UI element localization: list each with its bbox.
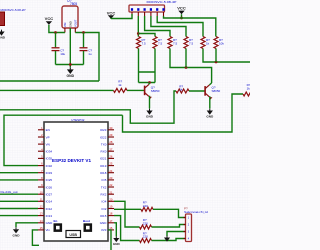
svg-text:IO21: IO21: [100, 157, 107, 161]
svg-text:VCC: VCC: [177, 6, 186, 11]
resistor R1 vertical: [137, 37, 141, 49]
ground at J1: [1, 30, 3, 32]
wire R12 to P2 pin4: [152, 239, 186, 241]
background canvas: [0, 0, 250, 250]
svg-text:IO23: IO23: [100, 128, 107, 132]
wire net B to R9: [123, 94, 244, 132]
wire IO32 net up-over: [4, 115, 123, 165]
svg-text:Boot: Boot: [83, 219, 90, 223]
wire R10 to P2 pin1: [153, 209, 185, 217]
module U2 left pins: [38, 129, 44, 131]
svg-text:IO14: IO14: [46, 200, 53, 204]
wire Q2 emitter to ground: [208, 97, 210, 109]
svg-text:21: 21: [109, 190, 112, 194]
svg-text:IO33: IO33: [46, 171, 53, 175]
wire VCC drop: [181, 14, 183, 18]
svg-text:7.5: 7.5: [142, 42, 147, 46]
wire P1 pin3 to R3 top: [145, 16, 170, 37]
regulator U1 body: [62, 6, 78, 28]
svg-text:S8050: S8050: [212, 89, 221, 93]
wire R3 bottom rail: [170, 49, 212, 84]
wire IO14 net: [0, 200, 38, 202]
ground at P2 pin3: [166, 236, 168, 238]
svg-text:19: 19: [109, 205, 112, 209]
svg-text:10u: 10u: [60, 52, 65, 56]
svg-text:VCC: VCC: [107, 10, 116, 15]
svg-text:Ds-24G_out: Ds-24G_out: [1, 190, 18, 194]
USB connector: [66, 231, 81, 238]
svg-text:24: 24: [109, 169, 112, 173]
wire collector link lower: [139, 82, 156, 84]
ground at Q1: [149, 109, 151, 111]
junction P1 pin2 branch: [137, 32, 140, 35]
wire +5V rail: [0, 80, 99, 82]
svg-text:IO13: IO13: [46, 214, 53, 218]
svg-text:IO22: IO22: [100, 135, 107, 139]
U1 pin VOUT: [74, 28, 76, 33]
svg-text:220: 220: [143, 235, 148, 239]
wire R6 bottom: [215, 49, 217, 63]
svg-text:IO5: IO5: [102, 178, 107, 182]
svg-text:20: 20: [109, 197, 112, 201]
svg-text:IO26: IO26: [46, 185, 53, 189]
capacitor C1: [55, 33, 57, 48]
resistor R8: [176, 89, 189, 93]
svg-text:IO25: IO25: [46, 178, 53, 182]
junction at C1 top: [54, 31, 57, 34]
svg-text:23: 23: [109, 176, 112, 180]
junction VCC on rail: [180, 17, 183, 20]
wire GND pin14 left: [16, 223, 38, 227]
wire IO15 to R12: [114, 216, 140, 241]
module U2 body: [44, 122, 108, 241]
wire R8 to Q2 base: [189, 90, 205, 92]
svg-text:TX0: TX0: [101, 142, 107, 146]
svg-text:IO27: IO27: [46, 192, 53, 196]
wire VOUT to +5V corner: [75, 33, 99, 82]
svg-text:15: 15: [40, 226, 43, 230]
wire R4 bottom: [185, 49, 187, 68]
svg-text:RX0: RX0: [101, 150, 107, 154]
wire IO4 to R11: [114, 201, 140, 227]
svg-text:11: 11: [40, 197, 43, 201]
svg-text:MODSVC-5.08-4P: MODSVC-5.08-4P: [147, 0, 177, 4]
ground below U1: [69, 67, 71, 69]
wire P1 pin5 to R5 top: [157, 16, 203, 37]
svg-text:ESP32 DEVKIT V1: ESP32 DEVKIT V1: [52, 158, 92, 163]
junction Q1 collector: [148, 81, 151, 84]
wire GPIO rail to R8: [0, 91, 176, 123]
wire IO27 net: [0, 193, 38, 195]
wire Q1 emitter to ground: [148, 96, 151, 108]
junction at C2 top: [82, 31, 85, 34]
svg-text:En: En: [54, 219, 58, 223]
resistor R12: [140, 239, 152, 243]
svg-text:10: 10: [40, 190, 43, 194]
svg-text:GND: GND: [146, 115, 154, 119]
svg-text:1k: 1k: [206, 42, 210, 46]
wire IO2 to R10: [114, 208, 141, 210]
junction R6 on rail: [215, 61, 218, 64]
svg-text:14: 14: [40, 219, 43, 223]
svg-text:17: 17: [109, 219, 112, 223]
wire R5 bottom rail: [203, 49, 250, 63]
capacitor C2: [83, 33, 85, 48]
svg-text:7.5: 7.5: [173, 42, 178, 46]
svg-text:IO35: IO35: [46, 157, 53, 161]
svg-text:S8050: S8050: [151, 89, 160, 93]
ground at pin17: [115, 236, 117, 238]
svg-text:VP: VP: [46, 135, 50, 139]
wire rail to R7 and Q1 base: [0, 89, 114, 91]
svg-text:IO4: IO4: [102, 200, 107, 204]
wire P1 pin6 to R6 top: [164, 16, 216, 37]
svg-text:RX2: RX2: [101, 192, 107, 196]
svg-text:VOUT: VOUT: [73, 19, 77, 27]
svg-text:7.5: 7.5: [158, 42, 163, 46]
svg-text:22: 22: [109, 183, 112, 187]
wire IO33 net: [0, 172, 38, 174]
resistor R5 vertical: [201, 37, 205, 49]
wire GND pin17 right: [114, 223, 116, 236]
U1 pin GND: [69, 28, 71, 33]
wire IO13 net: [0, 215, 38, 217]
svg-text:27: 27: [109, 147, 112, 151]
wire branch to R2 top: [138, 34, 155, 37]
svg-text:IO15: IO15: [100, 214, 107, 218]
header P2 body: [186, 214, 192, 242]
svg-text:1k: 1k: [247, 87, 250, 91]
wire P2 pin3 to ground: [167, 232, 185, 237]
wire VCC to VIN: [49, 25, 65, 33]
junction R4 on rail: [185, 66, 188, 69]
svg-text:GND: GND: [206, 115, 214, 119]
svg-text:GND: GND: [113, 242, 121, 246]
svg-text:Vin: Vin: [46, 228, 51, 232]
wire R7 to Q1 base: [127, 89, 145, 91]
svg-text:30: 30: [109, 126, 112, 130]
svg-text:MODSVC-5.08-2P: MODSVC-5.08-2P: [1, 8, 26, 12]
svg-text:1u: 1u: [88, 52, 92, 56]
wire VCC to P1 pin1: [111, 14, 132, 19]
wire 3V3 to bottom edge: [108, 230, 111, 250]
svg-text:1k: 1k: [179, 87, 183, 91]
wire R2 bottom to Q1 collector: [154, 49, 156, 83]
svg-text:7.5: 7.5: [189, 42, 194, 46]
wire Vin net: [32, 230, 39, 245]
svg-text:GND: GND: [0, 36, 6, 40]
svg-text:VN: VN: [46, 142, 50, 146]
junction at ground bus: [69, 63, 72, 66]
wire U1 GND down: [69, 28, 71, 67]
svg-text:IO32: IO32: [46, 164, 53, 168]
header P2 pins: [184, 217, 186, 219]
resistor R10: [141, 207, 153, 211]
transistor Q1: [144, 86, 146, 96]
resistor R11: [140, 225, 152, 229]
resistor R2 vertical: [153, 37, 157, 49]
svg-text:VCC: VCC: [45, 16, 54, 21]
wire Q2 collector stub: [209, 83, 211, 85]
resistor R4 vertical: [184, 37, 188, 49]
svg-text:IO18: IO18: [100, 171, 107, 175]
svg-text:10k: 10k: [219, 42, 224, 46]
svg-text:IO2: IO2: [102, 207, 107, 211]
svg-text:USB: USB: [69, 233, 77, 237]
svg-text:220: 220: [143, 222, 148, 226]
svg-text:IO19: IO19: [100, 164, 107, 168]
svg-text:12: 12: [40, 205, 43, 209]
svg-text:TX2: TX2: [101, 185, 107, 189]
wire IO25 net: [0, 179, 38, 181]
wire IO12 net: [0, 208, 38, 210]
svg-text:GND: GND: [13, 233, 21, 237]
transistor Q2: [204, 86, 206, 96]
wire P1 pin4 to R4 top: [151, 16, 186, 37]
svg-text:GND: GND: [67, 74, 75, 78]
resistor R6 vertical: [214, 37, 218, 49]
svg-text:EN: EN: [46, 128, 50, 132]
wire R11 to P2 pin2: [152, 225, 186, 228]
svg-text:3V3: 3V3: [101, 228, 107, 232]
ground at Q2: [209, 109, 211, 111]
resistor R7 inline: [114, 88, 128, 92]
header P1 body: [129, 5, 165, 12]
svg-text:13: 13: [40, 212, 43, 216]
svg-text:29: 29: [109, 133, 112, 137]
connector J1 screw terminal (clipped at edge): [0, 12, 5, 26]
svg-text:GND: GND: [68, 21, 72, 27]
wire capacitor ground bus: [56, 64, 84, 66]
svg-text:VIN: VIN: [63, 23, 67, 28]
U1 pin VIN: [64, 28, 66, 33]
svg-text:25: 25: [109, 162, 112, 166]
resistor R9 (clipped at edge): [243, 92, 256, 96]
svg-text:P?: P?: [184, 207, 188, 211]
svg-text:GND: GND: [46, 221, 54, 225]
ground at pin14: [15, 227, 17, 229]
svg-text:IO12: IO12: [46, 207, 53, 211]
svg-text:28: 28: [109, 140, 112, 144]
wire R1 bottom to Q1 collector: [138, 49, 140, 83]
svg-text:GND: GND: [100, 221, 108, 225]
svg-text:18: 18: [109, 212, 112, 216]
svg-text:220: 220: [143, 204, 148, 208]
svg-text:1k: 1k: [118, 83, 122, 87]
svg-text:26: 26: [109, 155, 112, 159]
wire P1 pin2 to R1 top: [137, 16, 139, 37]
wire Q1 collector stub: [148, 83, 151, 85]
wire collector link upper: [139, 71, 156, 73]
resistor R3 vertical: [168, 37, 172, 49]
module U2 right pins: [108, 129, 114, 131]
svg-text:IO34: IO34: [46, 150, 53, 154]
header P1 pins: [131, 12, 133, 16]
